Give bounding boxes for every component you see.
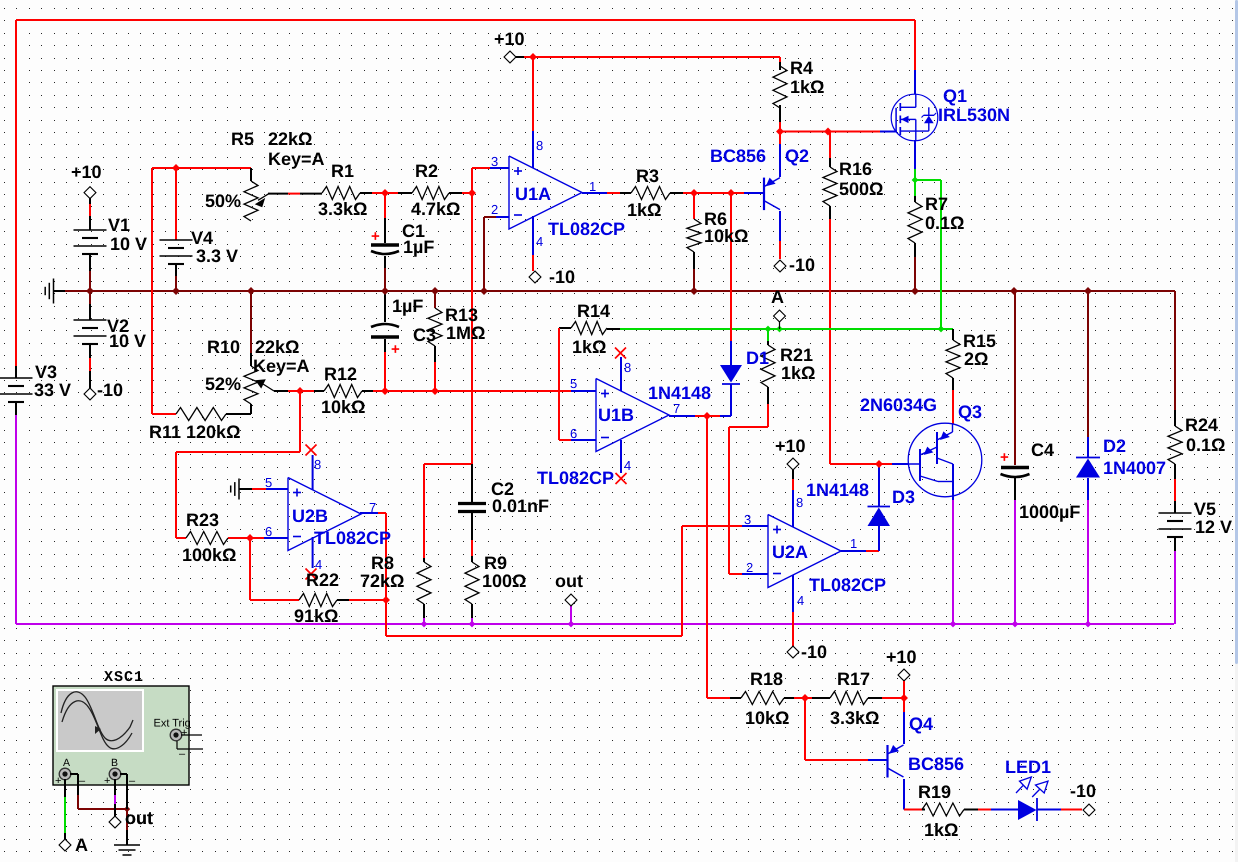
svg-text:C3: C3 bbox=[413, 325, 436, 345]
svg-text:V1: V1 bbox=[108, 215, 130, 235]
svg-text:+: + bbox=[1000, 449, 1009, 466]
svg-text:8: 8 bbox=[624, 360, 631, 375]
svg-text:R19: R19 bbox=[918, 782, 951, 802]
svg-text:BC856: BC856 bbox=[710, 146, 766, 166]
svg-text:1µF: 1µF bbox=[403, 237, 434, 257]
svg-text:TL082CP: TL082CP bbox=[314, 528, 391, 548]
svg-text:3.3kΩ: 3.3kΩ bbox=[318, 199, 367, 219]
svg-text:R8: R8 bbox=[371, 553, 394, 573]
svg-text:C4: C4 bbox=[1031, 440, 1054, 460]
svg-text:R24: R24 bbox=[1185, 415, 1218, 435]
svg-text:+10: +10 bbox=[494, 29, 525, 49]
svg-text:8: 8 bbox=[796, 495, 803, 510]
svg-text:R22: R22 bbox=[306, 570, 339, 590]
svg-text:3.3 V: 3.3 V bbox=[196, 246, 238, 266]
svg-text:0.01nF: 0.01nF bbox=[492, 496, 549, 516]
svg-text:+: + bbox=[391, 341, 400, 358]
svg-text:10kΩ: 10kΩ bbox=[704, 226, 748, 246]
svg-text:R17: R17 bbox=[837, 669, 870, 689]
svg-text:2Ω: 2Ω bbox=[964, 349, 988, 369]
svg-text:Key=A: Key=A bbox=[268, 149, 325, 169]
svg-text:52%: 52% bbox=[205, 374, 241, 394]
svg-text:V5: V5 bbox=[1194, 499, 1216, 519]
svg-text:U2B: U2B bbox=[292, 506, 328, 526]
svg-text:R23: R23 bbox=[186, 510, 219, 530]
svg-text:V3: V3 bbox=[35, 362, 57, 382]
svg-text:–: – bbox=[129, 775, 136, 787]
svg-text:LED1: LED1 bbox=[1005, 757, 1051, 777]
svg-text:TL082CP: TL082CP bbox=[537, 468, 614, 488]
svg-text:IRL530N: IRL530N bbox=[938, 105, 1010, 125]
svg-text:1µF: 1µF bbox=[392, 296, 423, 316]
svg-text:1000µF: 1000µF bbox=[1019, 502, 1080, 522]
svg-text:3.3kΩ: 3.3kΩ bbox=[830, 708, 879, 728]
svg-text:A: A bbox=[75, 835, 88, 855]
svg-text:V4: V4 bbox=[191, 228, 213, 248]
svg-text:R10: R10 bbox=[207, 337, 240, 357]
svg-text:A: A bbox=[63, 757, 70, 769]
svg-text:1: 1 bbox=[850, 536, 857, 551]
svg-text:D2: D2 bbox=[1103, 436, 1126, 456]
svg-text:out: out bbox=[125, 808, 153, 828]
svg-text:U1B: U1B bbox=[598, 405, 634, 425]
svg-text:Q3: Q3 bbox=[958, 402, 982, 422]
svg-text:2N6034G: 2N6034G bbox=[860, 395, 937, 415]
svg-text:R15: R15 bbox=[963, 331, 996, 351]
svg-text:U1A: U1A bbox=[515, 184, 551, 204]
svg-text:–: – bbox=[79, 775, 86, 787]
svg-text:2: 2 bbox=[491, 202, 498, 217]
svg-text:-10: -10 bbox=[801, 642, 827, 662]
svg-text:D3: D3 bbox=[892, 487, 915, 507]
svg-text:10 V: 10 V bbox=[109, 331, 146, 351]
svg-text:BC856: BC856 bbox=[908, 754, 964, 774]
svg-text:22kΩ: 22kΩ bbox=[268, 129, 312, 149]
svg-text:5: 5 bbox=[570, 376, 577, 391]
svg-text:12 V: 12 V bbox=[1195, 517, 1232, 537]
svg-text:out: out bbox=[555, 571, 583, 591]
svg-text:U2A: U2A bbox=[772, 542, 808, 562]
svg-text:7: 7 bbox=[369, 500, 376, 515]
svg-text:TL082CP: TL082CP bbox=[809, 575, 886, 595]
svg-text:2: 2 bbox=[746, 560, 753, 575]
svg-text:+: + bbox=[55, 775, 61, 787]
svg-text:+: + bbox=[371, 228, 380, 245]
svg-text:+10: +10 bbox=[886, 647, 917, 667]
svg-text:4.7kΩ: 4.7kΩ bbox=[411, 199, 460, 219]
svg-text:10 V: 10 V bbox=[110, 234, 147, 254]
svg-text:1kΩ: 1kΩ bbox=[781, 363, 815, 383]
svg-text:1kΩ: 1kΩ bbox=[790, 77, 824, 97]
svg-text:4: 4 bbox=[797, 593, 804, 608]
svg-text:R12: R12 bbox=[324, 364, 357, 384]
svg-text:3: 3 bbox=[491, 154, 498, 169]
svg-text:+: + bbox=[181, 727, 187, 739]
svg-text:-10: -10 bbox=[789, 255, 815, 275]
svg-text:Q4: Q4 bbox=[909, 714, 933, 734]
svg-text:-10: -10 bbox=[97, 380, 123, 400]
svg-text:+10: +10 bbox=[775, 436, 806, 456]
svg-text:8: 8 bbox=[314, 457, 321, 472]
svg-text:R3: R3 bbox=[636, 166, 659, 186]
svg-text:R5: R5 bbox=[231, 129, 254, 149]
svg-text:10kΩ: 10kΩ bbox=[745, 708, 789, 728]
svg-text:R18: R18 bbox=[750, 669, 783, 689]
svg-text:R13: R13 bbox=[445, 305, 478, 325]
svg-text:100Ω: 100Ω bbox=[482, 571, 526, 591]
svg-text:+: + bbox=[104, 775, 110, 787]
svg-text:72kΩ: 72kΩ bbox=[360, 571, 404, 591]
svg-text:XSC1: XSC1 bbox=[104, 669, 144, 686]
svg-text:B: B bbox=[111, 757, 118, 769]
svg-text:R7: R7 bbox=[925, 194, 948, 214]
svg-text:R14: R14 bbox=[577, 301, 610, 321]
svg-text:3: 3 bbox=[744, 512, 751, 527]
svg-text:100kΩ: 100kΩ bbox=[182, 545, 236, 565]
svg-text:R16: R16 bbox=[839, 159, 872, 179]
svg-text:1MΩ: 1MΩ bbox=[446, 323, 485, 343]
svg-text:1N4148: 1N4148 bbox=[648, 383, 711, 403]
svg-text:Q1: Q1 bbox=[943, 86, 967, 106]
svg-text:1N4007: 1N4007 bbox=[1103, 458, 1166, 478]
svg-text:6: 6 bbox=[265, 524, 272, 539]
svg-text:33 V: 33 V bbox=[34, 380, 71, 400]
svg-text:500Ω: 500Ω bbox=[839, 179, 883, 199]
svg-text:Q2: Q2 bbox=[785, 146, 809, 166]
svg-text:22kΩ: 22kΩ bbox=[255, 337, 299, 357]
svg-text:D1: D1 bbox=[746, 348, 769, 368]
svg-text:1N4148: 1N4148 bbox=[806, 480, 869, 500]
svg-text:R1: R1 bbox=[331, 161, 354, 181]
svg-text:0.1Ω: 0.1Ω bbox=[1186, 435, 1225, 455]
svg-text:6: 6 bbox=[570, 426, 577, 441]
svg-text:A: A bbox=[771, 287, 784, 307]
svg-text:R9: R9 bbox=[484, 553, 507, 573]
svg-text:R2: R2 bbox=[415, 161, 438, 181]
svg-text:-10: -10 bbox=[1070, 781, 1096, 801]
svg-text:7: 7 bbox=[673, 401, 680, 416]
svg-text:R4: R4 bbox=[790, 58, 813, 78]
svg-text:1kΩ: 1kΩ bbox=[627, 200, 661, 220]
svg-text:0.1Ω: 0.1Ω bbox=[925, 213, 964, 233]
svg-text:-10: -10 bbox=[549, 267, 575, 287]
svg-text:TL082CP: TL082CP bbox=[548, 219, 625, 239]
svg-text:4: 4 bbox=[536, 234, 543, 249]
svg-text:1: 1 bbox=[589, 179, 596, 194]
svg-text:1kΩ: 1kΩ bbox=[572, 337, 606, 357]
svg-text:5: 5 bbox=[265, 475, 272, 490]
svg-text:4: 4 bbox=[315, 557, 322, 572]
svg-text:8: 8 bbox=[536, 138, 543, 153]
svg-text:4: 4 bbox=[624, 458, 631, 473]
svg-text:50%: 50% bbox=[205, 191, 241, 211]
svg-text:+10: +10 bbox=[71, 162, 102, 182]
svg-text:1kΩ: 1kΩ bbox=[924, 820, 958, 840]
svg-text:R21: R21 bbox=[780, 345, 813, 365]
svg-text:91kΩ: 91kΩ bbox=[294, 606, 338, 626]
svg-text:–: – bbox=[179, 748, 186, 760]
svg-text:10kΩ: 10kΩ bbox=[321, 397, 365, 417]
svg-text:R11 120kΩ: R11 120kΩ bbox=[149, 422, 241, 442]
svg-text:Key=A: Key=A bbox=[253, 356, 310, 376]
